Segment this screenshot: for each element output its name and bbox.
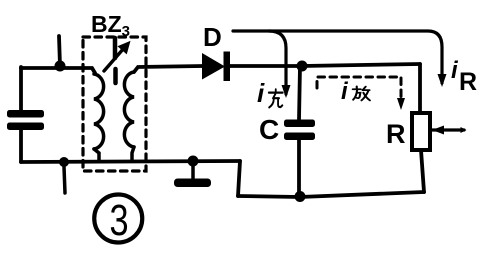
- wire capacitor C to rail: [297, 140, 301, 196]
- node D junction: [295, 191, 306, 202]
- iR arrowhead: [438, 74, 447, 87]
- svg-text:i: i: [341, 78, 349, 105]
- svg-text:D: D: [203, 22, 222, 52]
- discharge annotation dashed arrow: [317, 77, 401, 104]
- potentiometer wiper lead: [432, 128, 464, 131]
- svg-text:R: R: [386, 119, 406, 149]
- current annotation i-charge branch: [269, 31, 286, 94]
- diode D triangle: [202, 53, 225, 80]
- capacitor C top plate: [284, 120, 315, 128]
- wire node C down to capacitor C: [299, 66, 300, 120]
- svg-text:C: C: [259, 114, 279, 145]
- antenna stub above node A: [59, 36, 60, 66]
- transformer core bar lower: [113, 69, 118, 83]
- resistor R body: [412, 113, 430, 150]
- wire node C to right corner: [302, 64, 420, 66]
- svg-text:3: 3: [109, 196, 128, 245]
- transformer secondary winding: [124, 72, 134, 147]
- ground stub: [191, 161, 195, 179]
- node B junction: [59, 157, 69, 167]
- wire bottom-left rail: [21, 161, 240, 162]
- wire bottom-right rail: [238, 192, 424, 197]
- discharge arrowhead: [397, 98, 405, 110]
- label i-charge (chong glyph): [269, 89, 283, 107]
- transformer core bar upper: [113, 38, 118, 58]
- wire top-left horizontal from C1 to transformer: [21, 68, 95, 73]
- capacitor C bottom plate: [284, 133, 315, 141]
- secondary top lead / wire to diode: [134, 66, 203, 72]
- node A junction: [55, 61, 66, 72]
- wire C1 left vertical upper: [19, 67, 23, 111]
- current annotation top line with iR arrow: [233, 31, 442, 83]
- stub below node B: [64, 167, 65, 193]
- ground bar: [174, 179, 211, 188]
- svg-text:R: R: [459, 68, 477, 96]
- capacitor C1 bottom plate: [7, 123, 44, 131]
- label i-discharge (fang glyph): [353, 86, 370, 100]
- wiper arrowhead: [432, 126, 444, 135]
- wire right vertical down to R: [418, 64, 422, 113]
- node C junction: [297, 61, 308, 72]
- diode D cathode bar: [224, 52, 231, 82]
- node E ground junction: [188, 156, 199, 167]
- svg-text:i: i: [451, 57, 459, 84]
- primary bottom lead: [94, 149, 99, 161]
- i-charge arrowhead: [282, 85, 291, 98]
- tuning arrow through transformer: [104, 43, 129, 72]
- secondary bottom lead: [132, 147, 134, 161]
- capacitor C1 top plate: [7, 110, 44, 118]
- wire diode to node C: [230, 64, 302, 68]
- wire C1 left vertical lower: [19, 130, 23, 162]
- figure number circle: [94, 195, 142, 243]
- transformer primary winding: [94, 74, 104, 149]
- wire R bottom to rail: [421, 150, 424, 192]
- wire bottom step down: [238, 161, 240, 196]
- transformer BZ3 dashed shield box: [83, 37, 146, 171]
- wiper lead end tick: [461, 127, 467, 133]
- svg-text:i: i: [257, 78, 265, 108]
- svg-text:BZ3: BZ3: [91, 11, 130, 40]
